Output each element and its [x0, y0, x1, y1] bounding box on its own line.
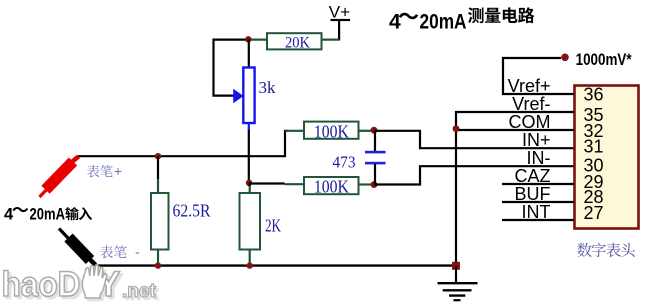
svg-text:100K: 100K — [314, 121, 349, 141]
pin number 30 — [584, 156, 604, 176]
wire cap bottom lead — [374, 164, 376, 184]
resistor R 62.5R — [151, 193, 169, 250]
capacitor C 473 — [365, 151, 386, 165]
wire cap top lead — [374, 131, 376, 152]
wire BUF pin 28 — [502, 201, 574, 203]
pin number 32 — [584, 121, 604, 141]
title CJK measurement-circuit — [468, 7, 534, 23]
wire 100K top right stub — [359, 130, 375, 132]
pin label Vref- — [512, 94, 550, 114]
node junction cap bottom — [371, 181, 378, 188]
wire IN+ step — [374, 131, 574, 148]
wire pot bottom to node — [248, 130, 250, 183]
wire node to 100K bottom left — [249, 182, 285, 184]
node junction COM — [453, 125, 460, 132]
power V+ terminal bar — [331, 19, 351, 21]
wire Vref+ pin 36 — [503, 58, 574, 94]
node junction ground — [452, 262, 460, 270]
svg-text:31: 31 — [584, 137, 604, 157]
wire IN- step — [374, 166, 574, 184]
pin number 29 — [584, 172, 604, 192]
label 473 — [333, 153, 356, 172]
svg-text:3k: 3k — [259, 78, 277, 97]
wire 2K top — [249, 183, 251, 187]
wire INT pin 27 — [502, 219, 574, 221]
svg-text:IN+: IN+ — [522, 130, 551, 150]
label digital meter CJK — [577, 243, 635, 257]
svg-text:62.5R: 62.5R — [173, 201, 211, 221]
pin label BUF — [515, 184, 551, 204]
svg-text:IN-: IN- — [527, 148, 551, 168]
svg-text:1000mV*: 1000mV* — [576, 50, 632, 69]
label input CJK — [65, 207, 92, 220]
pin label CAZ — [515, 166, 551, 186]
node junction 1000mV — [561, 54, 569, 62]
pin number 35 — [584, 105, 604, 125]
label 2K — [265, 216, 281, 236]
label input tilde — [12, 207, 28, 212]
svg-text:V+: V+ — [329, 2, 350, 21]
resistor R 100K top — [304, 121, 359, 141]
label 4~20mA input — [4, 206, 65, 224]
svg-text:.net: .net — [122, 281, 156, 302]
svg-text:4: 4 — [389, 11, 401, 34]
wire COM pin 32 — [456, 129, 574, 131]
logo haoDIY.net watermark — [2, 265, 160, 306]
svg-text:haoD: haoD — [2, 265, 81, 304]
probe red plus — [40, 156, 79, 197]
svg-text:+: + — [114, 163, 122, 179]
title 4~20mA measurement circuit — [389, 11, 467, 34]
pin number 36 — [584, 85, 604, 105]
wire 2K bottom — [249, 250, 251, 266]
node junction rail 2K bottom — [247, 262, 253, 268]
pin label IN+ — [522, 130, 551, 150]
wire 20K left stub — [248, 38, 267, 40]
svg-text:2K: 2K — [265, 216, 281, 236]
pin label COM — [509, 112, 551, 132]
node junction pot 2K 100K — [246, 180, 252, 186]
potentiometer R 3k body with wiper arrow — [233, 68, 254, 124]
pin label INT — [522, 202, 551, 222]
wire pot top — [248, 40, 250, 69]
wire pot bottom blue stub — [248, 123, 250, 132]
svg-text:20K: 20K — [285, 34, 311, 51]
title tilde — [399, 13, 418, 19]
label 3k — [259, 78, 277, 97]
svg-text:100K: 100K — [314, 176, 349, 196]
pin number 31 — [584, 137, 604, 157]
power V+ label — [329, 2, 350, 21]
label probe+ CJK — [87, 163, 122, 179]
svg-text:20mA: 20mA — [420, 11, 467, 34]
wire Vref- pin 35 and ground feed — [456, 112, 574, 266]
pin label IN- — [527, 148, 551, 168]
IC U1 digital meter body — [575, 86, 639, 229]
pin number 27 — [584, 203, 604, 223]
label probe- CJK — [100, 244, 140, 260]
ground symbol — [438, 266, 478, 300]
wire pot feedback loop — [214, 40, 249, 96]
svg-text:27: 27 — [584, 203, 604, 223]
label 62.5R — [173, 201, 211, 221]
wire 20K right stub — [323, 38, 340, 40]
svg-text:473: 473 — [333, 153, 356, 172]
node junction rail 62.5R — [155, 153, 161, 159]
node junction top of pot — [245, 36, 251, 42]
wire CAZ pin 29 — [502, 183, 574, 185]
pin label Vref+ — [508, 76, 551, 96]
svg-text:4: 4 — [4, 206, 14, 224]
wire 100K top left stub — [285, 130, 304, 132]
wire V+ down — [338, 20, 340, 41]
node junction rail 62.5R bottom — [155, 262, 161, 268]
wire 62.5R bottom — [157, 250, 159, 266]
svg-text:-: - — [135, 244, 140, 260]
wire 62.5R top — [157, 156, 159, 179]
pin number 28 — [584, 187, 604, 207]
node junction cap top — [371, 127, 378, 134]
resistor R 20K — [267, 33, 322, 51]
resistor R 100K bottom — [304, 176, 359, 196]
probe black minus — [59, 229, 96, 266]
svg-text:20mA: 20mA — [30, 206, 66, 224]
resistor R 2K — [240, 193, 261, 250]
svg-text:36: 36 — [584, 85, 604, 105]
wire bottom rail — [95, 264, 456, 266]
wire 100K bottom right stub — [359, 183, 375, 185]
label 1000mV — [576, 50, 632, 69]
wire top rail probe+ — [78, 131, 288, 156]
